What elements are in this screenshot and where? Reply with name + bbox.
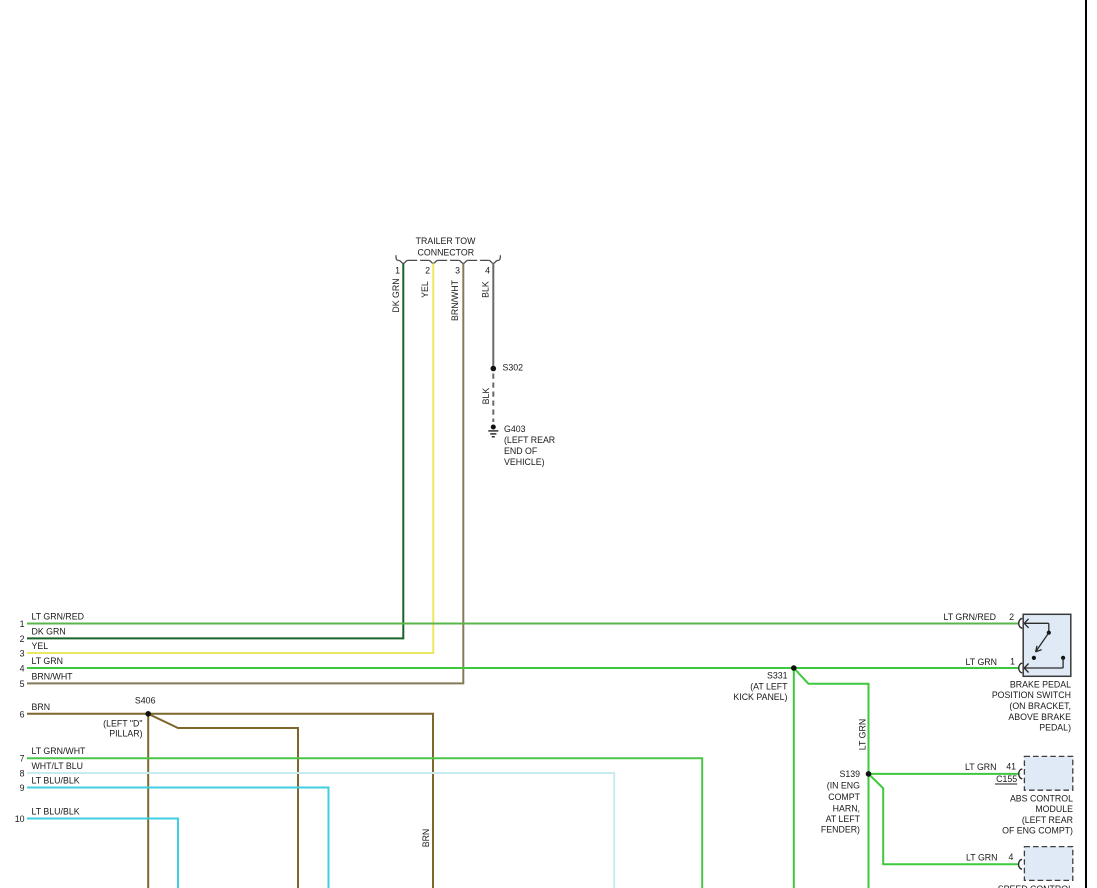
switch blade with arrow <box>1036 633 1049 652</box>
wire row 8 WHT/LT BLU right then down at x=614 <box>27 773 614 888</box>
ABS connector box (dashed) <box>1024 756 1072 790</box>
svg-text:6: 6 <box>20 709 25 719</box>
svg-text:S406: S406 <box>135 696 156 706</box>
svg-text:BLK: BLK <box>480 281 490 298</box>
label S406 location (LEFT "D" PILLAR) <box>103 719 142 739</box>
svg-text:LT GRN: LT GRN <box>966 852 997 862</box>
svg-text:KICK PANEL): KICK PANEL) <box>733 692 787 702</box>
speed control connector box (dashed) <box>1024 847 1072 881</box>
svg-text:5: 5 <box>20 679 25 689</box>
svg-text:DK GRN: DK GRN <box>391 278 401 312</box>
svg-text:BRN/WHT: BRN/WHT <box>450 279 460 321</box>
wire row 9 LT BLU/BLK right then down at x=328.5 <box>27 788 329 888</box>
svg-text:4: 4 <box>20 664 25 674</box>
svg-text:CONNECTOR: CONNECTOR <box>418 248 475 258</box>
svg-text:2: 2 <box>425 265 430 275</box>
svg-text:C155: C155 <box>996 774 1017 784</box>
svg-text:10: 10 <box>15 814 25 824</box>
svg-text:S139: S139 <box>839 769 860 779</box>
wire row 6 BRN right then down at x=433 <box>27 714 433 888</box>
svg-text:YEL: YEL <box>32 641 49 651</box>
wire row 7 LT GRN/WHT right then down at x=702 <box>27 758 702 888</box>
wire YEL from pin 2 down and left to row 3 <box>27 263 433 653</box>
svg-text:1: 1 <box>1010 657 1015 667</box>
svg-text:BRN: BRN <box>421 829 431 848</box>
svg-text:OF ENG COMPT): OF ENG COMPT) <box>1002 826 1073 836</box>
svg-text:ABS CONTROL: ABS CONTROL <box>1010 794 1073 804</box>
svg-text:LT BLU/BLK: LT BLU/BLK <box>32 776 80 786</box>
svg-text:(LEFT REAR: (LEFT REAR <box>1022 815 1073 825</box>
wire BLK dashed from S302 to G403 <box>492 374 494 423</box>
brake pedal position switch box <box>1023 614 1071 676</box>
connector title TRAILER TOW CONNECTOR <box>416 236 476 257</box>
splice S302 <box>491 366 497 372</box>
svg-text:BRN: BRN <box>32 702 51 712</box>
pin 2 terminal ( <box>1019 619 1023 629</box>
switch contact lower left <box>1032 656 1036 660</box>
svg-text:YEL: YEL <box>420 281 430 298</box>
svg-text:9: 9 <box>20 783 25 793</box>
svg-text:(LEFT "D": (LEFT "D" <box>103 719 142 729</box>
svg-text:2: 2 <box>20 634 25 644</box>
label G403 location <box>504 424 555 467</box>
wire S331 diagonal branch to LT GRN vertical <box>794 668 869 774</box>
svg-text:FENDER): FENDER) <box>821 824 860 834</box>
switch internal: pin 2 arm with arrow <box>1024 619 1049 633</box>
ground G403 <box>488 425 498 437</box>
svg-text:S302: S302 <box>503 362 524 372</box>
svg-text:LT GRN/WHT: LT GRN/WHT <box>32 746 87 756</box>
svg-text:1: 1 <box>20 619 25 629</box>
svg-text:S331: S331 <box>767 671 788 681</box>
svg-text:3: 3 <box>455 265 460 275</box>
pin 41 terminal ( <box>1019 769 1023 779</box>
svg-text:3: 3 <box>20 649 25 659</box>
switch internal: pin 1 arm with arrow <box>1024 658 1063 673</box>
svg-text:DK GRN: DK GRN <box>32 626 66 636</box>
svg-text:COMPT: COMPT <box>828 792 860 802</box>
svg-text:POSITION SWITCH: POSITION SWITCH <box>992 690 1071 700</box>
splice S139 <box>866 771 872 777</box>
svg-text:SPEED CONTROL: SPEED CONTROL <box>998 884 1073 888</box>
svg-text:4: 4 <box>1008 852 1013 862</box>
wire BRN/WHT from pin 3 down and left to row 5 <box>27 263 463 683</box>
svg-text:AT LEFT: AT LEFT <box>826 814 861 824</box>
wire row 4 LT GRN to brake switch pin 1 <box>27 667 1019 669</box>
wire DK GRN from pin 1 down and left to row 2 <box>27 263 403 638</box>
wire S406 diagonal branch down at x=298 <box>148 714 298 888</box>
svg-text:END OF: END OF <box>504 446 538 456</box>
svg-text:VEHICLE): VEHICLE) <box>504 457 545 467</box>
wire S331 branch straight down <box>793 668 795 888</box>
svg-text:LT BLU/BLK: LT BLU/BLK <box>32 807 80 817</box>
wire row 10 LT BLU/BLK right then down at x=178 <box>27 819 178 888</box>
label brake pedal position switch <box>992 679 1071 732</box>
svg-text:LT GRN/RED: LT GRN/RED <box>32 612 84 622</box>
svg-text:2: 2 <box>1009 612 1014 622</box>
connector C? trailer tow (dashed body with 4 sockets) <box>396 255 501 263</box>
label S331 location <box>733 671 788 702</box>
svg-text:MODULE: MODULE <box>1035 804 1073 814</box>
svg-text:HARN,: HARN, <box>833 803 860 813</box>
svg-text:LT GRN: LT GRN <box>32 656 63 666</box>
svg-text:8: 8 <box>20 769 25 779</box>
svg-text:G403: G403 <box>504 424 526 434</box>
pin 4 terminal ( <box>1019 860 1023 870</box>
label S139 location <box>821 769 861 834</box>
svg-text:WHT/LT BLU: WHT/LT BLU <box>32 761 83 771</box>
switch contact lower right <box>1061 656 1065 660</box>
page border line (right edge) <box>1085 0 1087 888</box>
wire S139 branch to speed control pin 4 <box>869 774 1019 864</box>
svg-text:LT GRN: LT GRN <box>965 762 996 772</box>
svg-text:TRAILER TOW: TRAILER TOW <box>416 236 476 246</box>
svg-text:BRAKE PEDAL: BRAKE PEDAL <box>1010 679 1071 689</box>
wire S406 branch straight down <box>147 714 149 888</box>
pin 1 terminal ( <box>1019 663 1023 673</box>
svg-text:PILLAR): PILLAR) <box>109 728 142 738</box>
wire S139 continues down <box>868 774 870 888</box>
svg-text:(AT LEFT: (AT LEFT <box>750 682 788 692</box>
svg-text:41: 41 <box>1006 762 1016 772</box>
svg-text:(LEFT REAR: (LEFT REAR <box>504 435 555 445</box>
splice S331 <box>791 665 797 671</box>
svg-text:PEDAL): PEDAL) <box>1039 723 1071 733</box>
svg-text:4: 4 <box>485 265 490 275</box>
wire row 1 LT GRN/RED to brake switch pin 2 <box>27 623 1019 625</box>
wire S139 to ABS pin 41 <box>869 773 1020 775</box>
splice S406 <box>145 711 151 717</box>
wire BLK from pin 4 down to S302 <box>492 263 494 368</box>
svg-text:7: 7 <box>20 754 25 764</box>
svg-text:BRN/WHT: BRN/WHT <box>32 671 74 681</box>
svg-text:BLK: BLK <box>481 388 491 405</box>
label ABS control module <box>1002 794 1073 836</box>
svg-text:LT GRN: LT GRN <box>966 657 997 667</box>
svg-text:1: 1 <box>395 265 400 275</box>
svg-text:(ON BRACKET,: (ON BRACKET, <box>1009 701 1071 711</box>
svg-text:(IN ENG: (IN ENG <box>827 780 860 790</box>
svg-text:ABOVE BRAKE: ABOVE BRAKE <box>1008 712 1071 722</box>
switch contact upper <box>1047 631 1051 635</box>
svg-text:LT GRN: LT GRN <box>857 719 867 750</box>
svg-text:LT GRN/RED: LT GRN/RED <box>944 612 996 622</box>
